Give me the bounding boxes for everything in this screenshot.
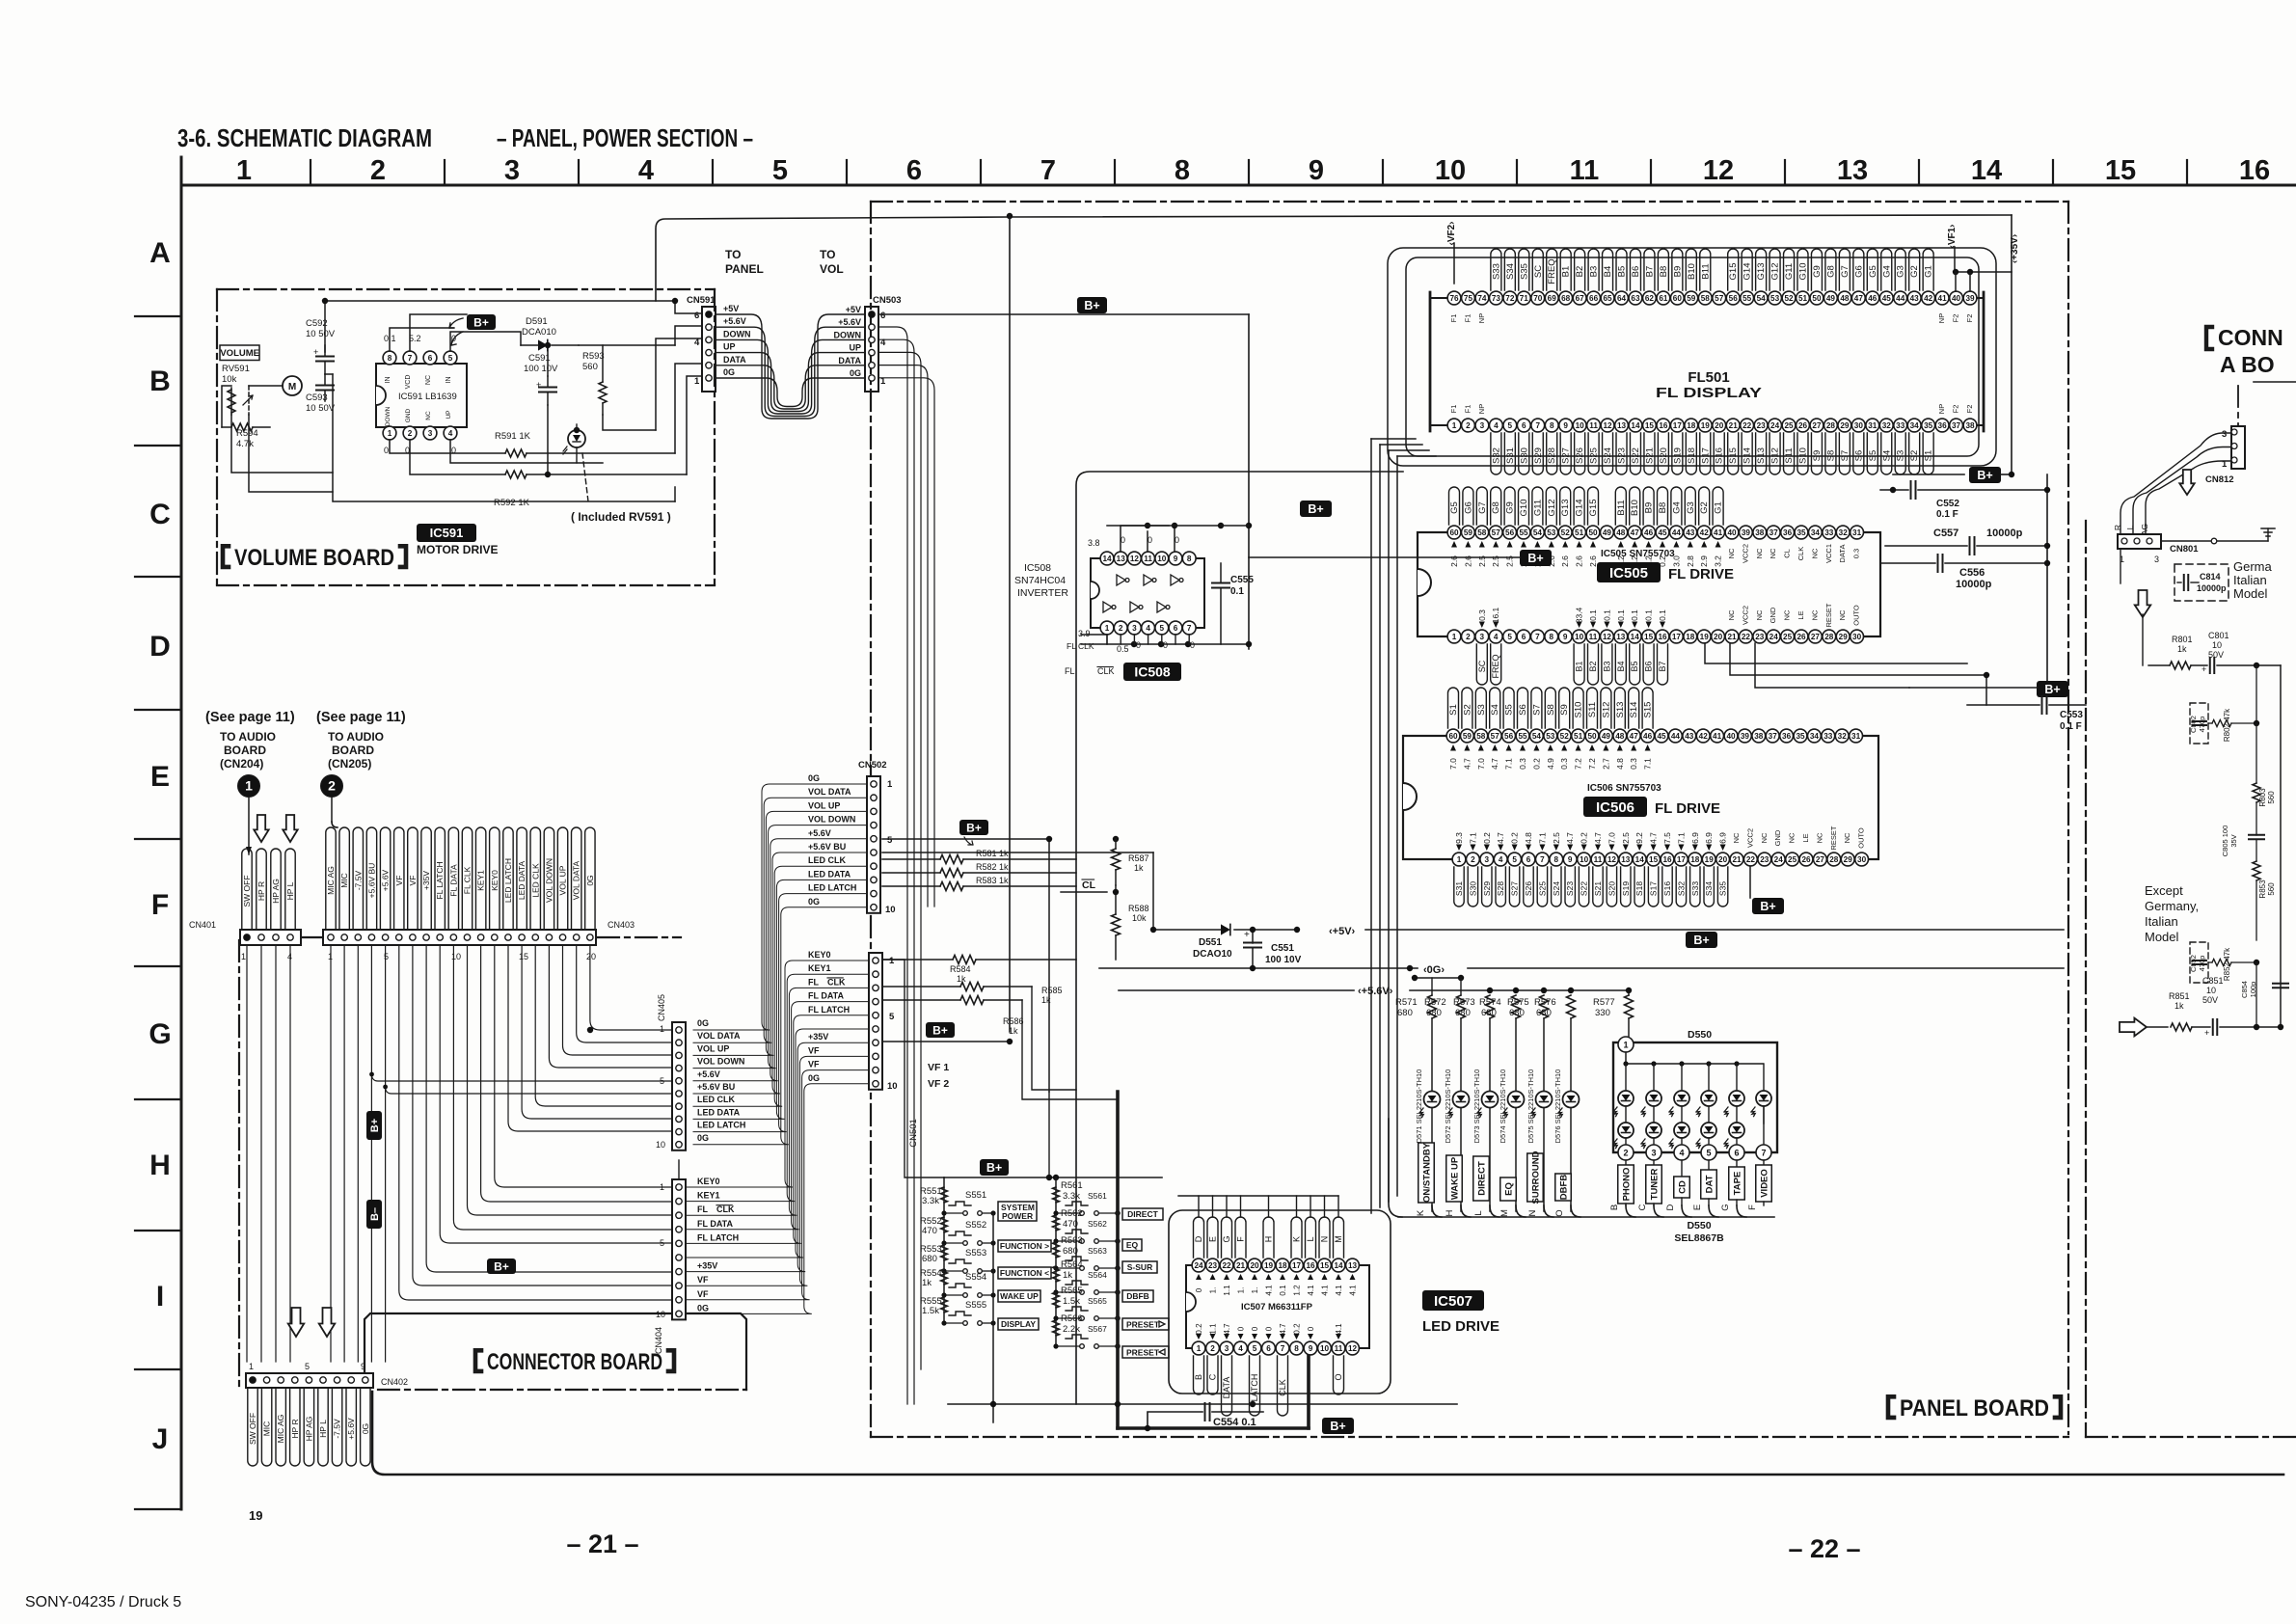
svg-text:32: 32 — [1838, 732, 1848, 741]
svg-text:B2: B2 — [1588, 661, 1598, 671]
svg-text:VF 1: VF 1 — [928, 1062, 949, 1073]
svg-text:VF: VF — [408, 876, 418, 886]
svg-text:VF 2: VF 2 — [928, 1078, 949, 1090]
svg-text:CN404: CN404 — [654, 1327, 663, 1354]
svg-text:11: 11 — [1594, 855, 1603, 864]
svg-text:27: 27 — [1812, 421, 1822, 430]
svg-text:6: 6 — [1266, 1344, 1271, 1353]
svg-text:4.1: 4.1 — [1307, 1285, 1315, 1296]
svg-text:7: 7 — [1540, 855, 1545, 864]
svg-text:31: 31 — [1852, 528, 1862, 537]
svg-text:42: 42 — [1699, 732, 1709, 741]
IC506 top net fingers — [1448, 688, 1459, 728]
svg-text:100 10V: 100 10V — [524, 364, 558, 374]
svg-text:B: B — [149, 365, 171, 397]
svg-text:30: 30 — [1854, 421, 1864, 430]
svg-text:S25: S25 — [1537, 881, 1547, 896]
svg-text:+: + — [313, 347, 318, 357]
svg-text:D576 SEL2210S-TH10: D576 SEL2210S-TH10 — [1553, 1069, 1562, 1144]
svg-text:G9: G9 — [1505, 501, 1516, 514]
svg-text:UP: UP — [723, 342, 736, 352]
label VOLUME — [220, 345, 259, 361]
svg-text:B6: B6 — [1644, 661, 1654, 671]
svg-text:B6: B6 — [1631, 266, 1641, 278]
svg-text:3: 3 — [1132, 624, 1137, 633]
svg-text:CN402: CN402 — [381, 1377, 408, 1387]
svg-text:G7: G7 — [1840, 265, 1850, 278]
svg-text:+5.6V: +5.6V — [697, 1069, 720, 1079]
svg-text:74: 74 — [1477, 294, 1487, 303]
svg-text:2: 2 — [1471, 855, 1475, 864]
svg-text:0G: 0G — [808, 1073, 820, 1083]
svg-text:KEY0: KEY0 — [697, 1177, 720, 1186]
svg-text:S563: S563 — [1088, 1246, 1107, 1256]
svg-text:FUNCTION >: FUNCTION > — [1000, 1241, 1049, 1251]
svg-text:FL DATA: FL DATA — [697, 1219, 733, 1229]
svg-text:B9: B9 — [1644, 502, 1655, 514]
svg-text:M: M — [1499, 1209, 1510, 1217]
svg-text:2: 2 — [408, 429, 413, 438]
svg-text:TO AUDIO: TO AUDIO — [328, 730, 384, 744]
svg-text:VCC1: VCC1 — [1824, 544, 1833, 563]
svg-text:560: 560 — [582, 362, 598, 372]
svg-text:B+: B+ — [494, 1259, 509, 1273]
resistor R582 — [940, 869, 963, 878]
svg-text:CL: CL — [1783, 549, 1792, 558]
svg-text:PANEL: PANEL — [725, 262, 764, 276]
svg-text:S562: S562 — [1088, 1219, 1107, 1229]
svg-text:42: 42 — [1924, 294, 1933, 303]
svg-text:VOLUME: VOLUME — [220, 348, 259, 359]
svg-text:S27: S27 — [1510, 881, 1520, 896]
svg-text:R562: R562 — [1061, 1208, 1083, 1219]
wire B+ vertical junction — [1246, 523, 1252, 528]
svg-text:+: + — [1244, 930, 1250, 940]
svg-text:4.1: 4.1 — [1321, 1285, 1330, 1296]
svg-text:11: 11 — [1589, 633, 1598, 641]
svg-text:+: + — [536, 380, 541, 390]
svg-text:4: 4 — [448, 429, 453, 438]
svg-text:G: G — [1222, 1235, 1231, 1242]
IC IC507 body — [1186, 1265, 1369, 1348]
svg-text:23: 23 — [1757, 421, 1767, 430]
svg-text:680: 680 — [922, 1254, 937, 1264]
svg-text:3: 3 — [504, 155, 520, 186]
svg-text:7.1: 7.1 — [1504, 758, 1514, 770]
svg-text:1: 1 — [236, 155, 252, 186]
svg-text:B–: B– — [369, 1207, 381, 1221]
svg-text:3: 3 — [428, 429, 433, 438]
svg-text:VOL DATA: VOL DATA — [572, 860, 581, 900]
svg-text:60: 60 — [1449, 528, 1459, 537]
volume board label — [223, 546, 229, 567]
svg-text:18: 18 — [1278, 1261, 1287, 1270]
svg-text:0G: 0G — [808, 897, 820, 907]
svg-text:8: 8 — [1554, 855, 1559, 864]
svg-text:45: 45 — [1658, 528, 1667, 537]
IC505 top pins — [1447, 526, 1461, 539]
svg-text:19: 19 — [1705, 855, 1715, 864]
svg-text:5: 5 — [1160, 624, 1165, 633]
svg-text:B4: B4 — [1603, 266, 1613, 278]
svg-text:16: 16 — [1662, 855, 1672, 864]
svg-text:59: 59 — [1463, 732, 1472, 741]
svg-text:3.8: 3.8 — [1088, 538, 1100, 548]
svg-text:21: 21 — [1236, 1261, 1246, 1270]
svg-text:NC: NC — [1755, 548, 1764, 558]
B+ label CN404 — [487, 1259, 516, 1274]
svg-text:VOL DATA: VOL DATA — [808, 787, 851, 797]
svg-text:25: 25 — [1788, 855, 1797, 864]
svg-text:6.9: 6.9 — [1718, 832, 1728, 844]
svg-text:41: 41 — [1938, 294, 1948, 303]
svg-text:72: 72 — [1505, 294, 1515, 303]
svg-text:4.7: 4.7 — [1496, 832, 1505, 844]
svg-text:S17: S17 — [1649, 881, 1659, 896]
svg-text:B8: B8 — [1659, 266, 1669, 278]
volume board wires — [231, 415, 333, 473]
svg-text:1k: 1k — [1009, 1026, 1018, 1036]
svg-text:0.2: 0.2 — [1510, 832, 1520, 844]
svg-text:F2: F2 — [1965, 314, 1974, 323]
svg-text:36: 36 — [1783, 528, 1793, 537]
svg-text:41: 41 — [1713, 732, 1722, 741]
svg-text:NC: NC — [1783, 609, 1792, 620]
svg-text:VOL: VOL — [820, 262, 844, 276]
svg-text:+: + — [2204, 1028, 2209, 1038]
svg-text:O: O — [1334, 1373, 1343, 1380]
svg-text:FL: FL — [697, 1204, 708, 1214]
label WAKE UP — [1446, 1155, 1463, 1202]
svg-text:3: 3 — [1225, 1344, 1229, 1353]
svg-text:1.1: 1.1 — [1209, 1323, 1218, 1335]
svg-text:7: 7 — [1187, 624, 1192, 633]
svg-text:IC507: IC507 — [1434, 1293, 1472, 1310]
svg-text:2: 2 — [1466, 421, 1471, 430]
arrows above CN402 — [288, 1308, 305, 1337]
svg-text:CN503: CN503 — [873, 295, 902, 306]
svg-text:71: 71 — [1520, 294, 1529, 303]
svg-text:R581 1k: R581 1k — [976, 849, 1009, 858]
svg-text:CN812: CN812 — [2205, 474, 2234, 485]
volume board boundary — [217, 288, 715, 290]
svg-text:9: 9 — [361, 1362, 365, 1371]
label TAPE — [1736, 1160, 1738, 1167]
svg-text:NC: NC — [1788, 832, 1796, 843]
svg-text:35: 35 — [1796, 732, 1805, 741]
svg-text:S23: S23 — [1617, 447, 1628, 464]
svg-text:S29: S29 — [1533, 447, 1544, 464]
svg-text:FL DATA: FL DATA — [808, 991, 844, 1001]
svg-text:27: 27 — [1811, 633, 1821, 641]
svg-text:R566: R566 — [1061, 1313, 1083, 1324]
svg-text:B4: B4 — [1616, 661, 1626, 671]
svg-text:DOWN: DOWN — [385, 406, 392, 426]
svg-text:31: 31 — [1868, 421, 1877, 430]
svg-text:50V: 50V — [2202, 995, 2218, 1005]
svg-text:TAPE: TAPE — [1732, 1172, 1742, 1196]
svg-text:5: 5 — [887, 835, 893, 846]
svg-text:S5: S5 — [1504, 704, 1515, 716]
svg-text:R584: R584 — [950, 964, 971, 974]
label PHONO — [1625, 1160, 1627, 1165]
svg-text:43: 43 — [1910, 294, 1920, 303]
svg-text:68: 68 — [1561, 294, 1571, 303]
svg-text:S26: S26 — [1524, 881, 1533, 896]
svg-text:G5: G5 — [1449, 501, 1460, 514]
svg-text:8: 8 — [1294, 1344, 1299, 1353]
svg-text:BOARD: BOARD — [224, 744, 266, 757]
svg-text:1.: 1. — [1237, 1287, 1246, 1294]
IC IC505 body — [1418, 532, 1880, 636]
svg-text:S21: S21 — [1644, 447, 1655, 464]
svg-text:1.5k: 1.5k — [1063, 1296, 1080, 1307]
wire LED B+ bus — [1415, 977, 1461, 979]
svg-text:S555: S555 — [965, 1300, 986, 1311]
svg-text:EQ: EQ — [1126, 1240, 1139, 1250]
svg-text:G8: G8 — [1491, 501, 1501, 514]
svg-text:FL CLK: FL CLK — [463, 866, 473, 894]
svg-text:2: 2 — [1623, 1149, 1628, 1158]
svg-text:0.1: 0.1 — [1644, 609, 1654, 621]
svg-text:CD: CD — [1677, 1180, 1688, 1194]
svg-text:B+: B+ — [473, 315, 489, 329]
svg-text:GND: GND — [1773, 829, 1782, 846]
svg-text:R594: R594 — [236, 428, 258, 439]
svg-text:S30: S30 — [1519, 447, 1529, 464]
svg-text:B+: B+ — [2044, 683, 2060, 696]
svg-text:5: 5 — [384, 952, 389, 961]
svg-text:0.1: 0.1 — [1279, 1285, 1287, 1296]
svg-text:0G: 0G — [361, 1423, 370, 1434]
svg-text:0.3: 0.3 — [1559, 758, 1569, 770]
svg-text:48: 48 — [1840, 294, 1850, 303]
wire B+ net from CN503 — [878, 313, 1249, 315]
connector board boundary — [238, 940, 240, 1390]
svg-text:57: 57 — [1492, 528, 1501, 537]
svg-text:22: 22 — [1742, 421, 1752, 430]
svg-text:IC508: IC508 — [1024, 562, 1051, 574]
svg-text:H: H — [1445, 1209, 1455, 1216]
wire CN401 verticals — [246, 945, 248, 1362]
svg-text:E: E — [1692, 1204, 1703, 1210]
svg-text:FL LATCH: FL LATCH — [435, 861, 445, 899]
svg-text:5: 5 — [660, 1076, 664, 1086]
svg-text:2.5: 2.5 — [1621, 832, 1631, 844]
svg-text:37: 37 — [1952, 421, 1961, 430]
IC507 letter bus — [1198, 1196, 1200, 1217]
svg-text:Germa: Germa — [2233, 559, 2273, 574]
svg-text:CONN: CONN — [2218, 325, 2283, 350]
svg-text:50: 50 — [1587, 732, 1597, 741]
svg-text:NC: NC — [1755, 609, 1764, 620]
svg-text:0G: 0G — [697, 1133, 709, 1143]
wire long bottom bus — [372, 1392, 2283, 1475]
label PRESET left — [1122, 1346, 1169, 1358]
svg-text:M: M — [288, 382, 296, 392]
svg-text:R577: R577 — [1593, 997, 1615, 1008]
resistor R583 — [940, 882, 963, 891]
svg-text:44: 44 — [1672, 528, 1682, 537]
svg-text:S19: S19 — [1621, 881, 1631, 896]
svg-text:11: 11 — [1589, 421, 1598, 430]
B+ label switches — [980, 1159, 1009, 1176]
svg-text:HP L: HP L — [285, 881, 295, 900]
svg-text:CN401: CN401 — [189, 920, 216, 930]
IC505 label — [1597, 562, 1661, 582]
svg-text:16: 16 — [1306, 1261, 1315, 1270]
svg-text:+5V: +5V — [846, 305, 861, 314]
svg-text:S33: S33 — [1491, 263, 1501, 280]
svg-text:S567: S567 — [1088, 1324, 1107, 1334]
svg-text:C854: C854 — [2240, 981, 2249, 998]
motor M591 — [283, 376, 302, 395]
svg-text:D572 SEL2210S-TH10: D572 SEL2210S-TH10 — [1444, 1069, 1452, 1144]
label DBFB — [1122, 1290, 1153, 1302]
svg-text:330: 330 — [1595, 1008, 1610, 1018]
svg-text:66: 66 — [1589, 294, 1599, 303]
svg-text:Italian: Italian — [2145, 914, 2178, 929]
svg-text:12: 12 — [1607, 855, 1617, 864]
svg-text:S35: S35 — [1718, 881, 1728, 896]
svg-text:1k: 1k — [922, 1278, 932, 1288]
svg-text:S11: S11 — [1587, 702, 1598, 717]
svg-text:C556: C556 — [1959, 567, 1985, 579]
svg-text:B+: B+ — [1760, 900, 1775, 913]
svg-text:LED LATCH: LED LATCH — [808, 883, 856, 893]
svg-text:PRESET: PRESET — [1126, 1348, 1160, 1358]
svg-text:LED CLK: LED CLK — [697, 1095, 735, 1104]
svg-text:S2: S2 — [1909, 450, 1920, 462]
svg-text:B8: B8 — [1658, 502, 1668, 514]
wire top bus 35v — [656, 215, 2012, 301]
capacitor C555 — [1212, 582, 1229, 584]
svg-text:40: 40 — [1952, 294, 1961, 303]
svg-text:C552: C552 — [1936, 499, 1959, 509]
svg-text:D575 SEL2210S-TH10: D575 SEL2210S-TH10 — [1526, 1069, 1535, 1144]
svg-text:1: 1 — [1452, 421, 1457, 430]
conn-a board boundary — [2085, 521, 2087, 1437]
svg-text:DBFB: DBFB — [1558, 1175, 1569, 1201]
svg-text:0.2: 0.2 — [1580, 832, 1589, 844]
svg-text:7: 7 — [1040, 155, 1056, 186]
svg-text:33.4: 33.4 — [1575, 607, 1584, 623]
svg-text:36: 36 — [1938, 421, 1948, 430]
IC507 bottom pins — [1192, 1341, 1205, 1355]
svg-text:FUNCTION <: FUNCTION < — [1000, 1268, 1049, 1278]
svg-text:5: 5 — [1507, 633, 1512, 641]
svg-text:9: 9 — [1563, 633, 1568, 641]
svg-text:4.1: 4.1 — [1349, 1285, 1358, 1296]
svg-text:6: 6 — [1734, 1149, 1739, 1158]
svg-text:40: 40 — [1726, 732, 1736, 741]
svg-text:8: 8 — [1187, 555, 1192, 563]
svg-text:NC: NC — [425, 375, 432, 385]
svg-text:33: 33 — [1824, 528, 1834, 537]
svg-text:E: E — [150, 761, 170, 793]
svg-text:15: 15 — [1644, 633, 1654, 641]
svg-text:0.2: 0.2 — [1531, 758, 1541, 770]
svg-text:+5.6V: +5.6V — [346, 1418, 356, 1440]
svg-text:15: 15 — [1645, 421, 1655, 430]
svg-text:62: 62 — [1645, 294, 1655, 303]
svg-text:B3: B3 — [1589, 266, 1600, 278]
svg-text:75: 75 — [1464, 294, 1473, 303]
svg-text:L: L — [1473, 1210, 1484, 1215]
svg-text:22: 22 — [1742, 633, 1751, 641]
svg-text:+35V: +35V — [697, 1261, 717, 1271]
svg-text:50: 50 — [1812, 294, 1822, 303]
svg-text:DBFB: DBFB — [1126, 1291, 1149, 1301]
svg-text:1: 1 — [694, 376, 700, 387]
svg-text:-7.5V: -7.5V — [333, 1419, 342, 1439]
svg-text:R853: R853 — [2258, 880, 2267, 899]
svg-text:+5.6V BU: +5.6V BU — [808, 842, 846, 852]
svg-text:0: 0 — [1307, 1326, 1315, 1331]
svg-text:12: 12 — [1603, 633, 1612, 641]
svg-text:4.7: 4.7 — [1279, 1323, 1287, 1335]
svg-text:CLK: CLK — [1097, 666, 1115, 676]
svg-text:NC: NC — [1760, 832, 1769, 843]
svg-text:H: H — [1264, 1236, 1274, 1243]
D550 top bus — [1625, 1052, 1627, 1064]
svg-text:4.7: 4.7 — [1490, 758, 1499, 770]
svg-text:D574 SEL2210S-TH10: D574 SEL2210S-TH10 — [1499, 1069, 1507, 1144]
svg-text:43: 43 — [1686, 528, 1695, 537]
svg-text:D: D — [149, 631, 171, 663]
svg-text:0.1: 0.1 — [1588, 609, 1598, 621]
svg-text:OUTO: OUTO — [1852, 605, 1861, 626]
B+ label top — [1077, 297, 1107, 313]
svg-text:S34: S34 — [1505, 263, 1516, 280]
svg-text:36: 36 — [1782, 732, 1792, 741]
IC508 top pins — [1100, 552, 1114, 565]
svg-text:1: 1 — [660, 1024, 664, 1034]
svg-text:7: 7 — [408, 354, 413, 363]
svg-text:+5.6V: +5.6V — [838, 317, 861, 327]
label DIRECT — [1122, 1208, 1163, 1220]
svg-text:11: 11 — [1570, 155, 1600, 186]
label WAKE UP — [998, 1290, 1040, 1302]
svg-text:50: 50 — [1588, 528, 1598, 537]
svg-text:6: 6 — [1526, 855, 1531, 864]
wires CN503 down — [878, 327, 907, 1404]
svg-text:B+: B+ — [986, 1161, 1002, 1175]
svg-text:11: 11 — [1335, 1344, 1343, 1353]
svg-text:54: 54 — [1533, 528, 1543, 537]
wires IC505 bottom right — [1705, 643, 1967, 663]
svg-text:12: 12 — [1130, 555, 1140, 563]
svg-text:R572: R572 — [1424, 997, 1446, 1008]
svg-text:D571 SEL2210S-TH10: D571 SEL2210S-TH10 — [1415, 1069, 1423, 1144]
svg-text:FL DRIVE: FL DRIVE — [1655, 800, 1720, 817]
svg-text:10 50V: 10 50V — [306, 403, 336, 414]
svg-text:S15: S15 — [1728, 447, 1739, 464]
svg-text:4.1: 4.1 — [1335, 1323, 1343, 1335]
svg-text:S551: S551 — [965, 1190, 986, 1201]
svg-text:OUTO: OUTO — [1857, 827, 1866, 849]
svg-text:6: 6 — [1522, 421, 1526, 430]
svg-text:4.9: 4.9 — [1546, 758, 1555, 770]
svg-text:1: 1 — [1457, 855, 1462, 864]
svg-text:FL: FL — [808, 977, 819, 987]
svg-text:4: 4 — [1238, 1344, 1243, 1353]
svg-text:B9: B9 — [1672, 266, 1683, 278]
svg-text:6.9: 6.9 — [1690, 832, 1700, 844]
svg-text:R585: R585 — [1041, 986, 1063, 995]
svg-text:ON/STANDBY: ON/STANDBY — [1421, 1142, 1432, 1203]
svg-text:9.3: 9.3 — [1454, 832, 1464, 844]
